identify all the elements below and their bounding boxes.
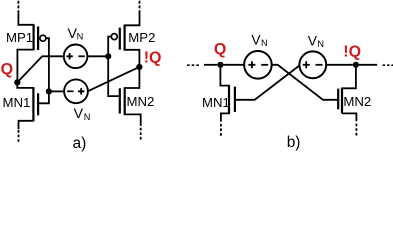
voltage source V_N left (b) [244, 51, 272, 79]
wire bottom source to node !Q [88, 67, 139, 91]
transistor MP2 [111, 1, 139, 67]
svg-text:MN1: MN1 [202, 95, 230, 110]
transistor MP1 [17, 1, 46, 83]
svg-text:!Q: !Q [144, 50, 162, 67]
ellipsis right edge [383, 64, 393, 66]
wire !Q out (b) [359, 64, 377, 66]
wire lead-in to Q (b) [204, 64, 217, 66]
transistor MN2 (a) [120, 67, 141, 141]
svg-text:N: N [317, 39, 324, 49]
transistor MN1 (b) [220, 65, 235, 136]
svg-text:V: V [308, 33, 318, 48]
svg-text:MN2: MN2 [127, 94, 155, 109]
junction dot right gate tie [105, 53, 111, 59]
svg-text:Q: Q [1, 61, 13, 78]
transistor MN2 (b) [338, 65, 356, 136]
node Q (b) [217, 62, 223, 68]
svg-text:MP1: MP1 [6, 30, 33, 45]
svg-text:MP2: MP2 [128, 30, 155, 45]
wire left gate tie to bottom source [49, 90, 64, 92]
svg-text:a): a) [73, 135, 87, 152]
voltage source V_N bottom (a) [64, 79, 88, 103]
voltage source V_N top (a) [64, 45, 88, 69]
svg-text:V: V [251, 32, 261, 47]
svg-text:MN1: MN1 [3, 95, 31, 110]
svg-text:N: N [77, 32, 84, 42]
ellipsis between sections [187, 64, 200, 66]
svg-text:!Q: !Q [343, 44, 361, 61]
junction dot left gate tie [46, 88, 52, 94]
svg-text:Q: Q [214, 41, 226, 58]
node !Q (b) [353, 62, 359, 68]
voltage source V_N right (b) [299, 51, 326, 78]
wire Q to left source (b) [223, 64, 244, 66]
wire right source to MN1 gate (cross) [236, 65, 300, 100]
svg-text:b): b) [287, 134, 301, 151]
wire right gate tie (MP2+MN2 gates) [108, 37, 119, 97]
wire top source to right gate tie [87, 55, 108, 57]
wire left source to MN2 gate (cross) [272, 65, 340, 100]
svg-text:MN2: MN2 [343, 94, 371, 109]
wire left gate tie (MP1+MN1 gates to bottom source) [39, 38, 49, 103]
wire right source to !Q (b) [326, 64, 353, 66]
svg-text:N: N [261, 38, 268, 48]
wire Q to top source [17, 56, 63, 82]
transistor MN1 (a) [17, 82, 38, 142]
svg-text:V: V [74, 106, 84, 122]
node Q (a) [14, 79, 20, 85]
node !Q (a) [136, 64, 142, 70]
svg-text:N: N [84, 112, 91, 122]
